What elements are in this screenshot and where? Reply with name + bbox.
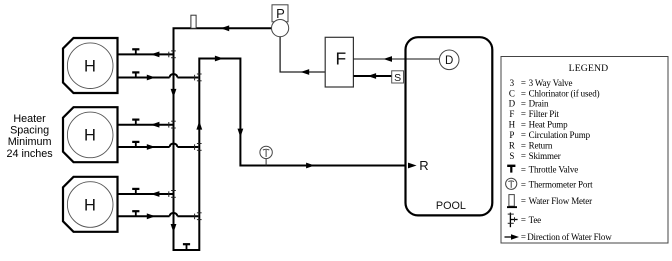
svg-text:Heat Pump: Heat Pump — [529, 120, 569, 130]
svg-text:Throttle Valve: Throttle Valve — [529, 164, 579, 174]
svg-text:3 Way Valve: 3 Way Valve — [529, 78, 573, 88]
svg-text:Circulation Pump: Circulation Pump — [529, 130, 591, 140]
svg-text:=: = — [521, 88, 526, 98]
svg-text:=: = — [521, 151, 526, 161]
svg-text:P: P — [276, 6, 285, 21]
svg-text:=: = — [521, 196, 526, 206]
svg-text:Filter Pit: Filter Pit — [529, 109, 560, 119]
svg-text:Water Flow Meter: Water Flow Meter — [529, 196, 593, 206]
svg-text:H: H — [84, 196, 96, 214]
svg-text:Direction of Water Flow: Direction of Water Flow — [527, 232, 612, 242]
svg-text:Skimmer: Skimmer — [529, 151, 561, 161]
svg-text:Chlorinator (if used): Chlorinator (if used) — [529, 88, 600, 98]
svg-text:=: = — [521, 179, 526, 189]
svg-text:H: H — [509, 120, 516, 130]
svg-text:LEGEND: LEGEND — [569, 63, 609, 74]
svg-text:D: D — [445, 55, 453, 67]
svg-text:H: H — [84, 58, 96, 76]
svg-text:24 inches: 24 inches — [6, 148, 53, 160]
svg-text:3: 3 — [510, 78, 515, 88]
svg-text:F: F — [509, 109, 514, 119]
svg-text:=: = — [521, 78, 526, 88]
svg-text:=: = — [521, 109, 526, 119]
svg-text:=: = — [521, 141, 526, 151]
svg-text:Drain: Drain — [529, 99, 549, 109]
svg-text:=: = — [521, 232, 526, 242]
svg-text:Heater: Heater — [13, 113, 46, 125]
svg-text:Thermometer Port: Thermometer Port — [529, 179, 593, 189]
svg-text:R: R — [419, 158, 428, 173]
svg-text:F: F — [335, 48, 346, 68]
svg-text:=: = — [521, 164, 526, 174]
svg-text:Spacing: Spacing — [10, 124, 49, 136]
svg-text:=: = — [521, 215, 526, 225]
svg-text:POOL: POOL — [436, 200, 466, 212]
svg-text:=: = — [521, 99, 526, 109]
svg-text:C: C — [509, 88, 515, 98]
svg-text:P: P — [509, 130, 514, 140]
svg-text:Return: Return — [529, 141, 553, 151]
svg-text:S: S — [509, 151, 514, 161]
svg-text:S: S — [394, 72, 401, 84]
svg-text:R: R — [509, 141, 515, 151]
svg-text:H: H — [84, 127, 96, 145]
svg-text:Tee: Tee — [529, 215, 542, 225]
svg-text:=: = — [521, 120, 526, 130]
svg-text:D: D — [509, 99, 516, 109]
svg-text:Minimum: Minimum — [8, 136, 52, 148]
svg-text:=: = — [521, 130, 526, 140]
